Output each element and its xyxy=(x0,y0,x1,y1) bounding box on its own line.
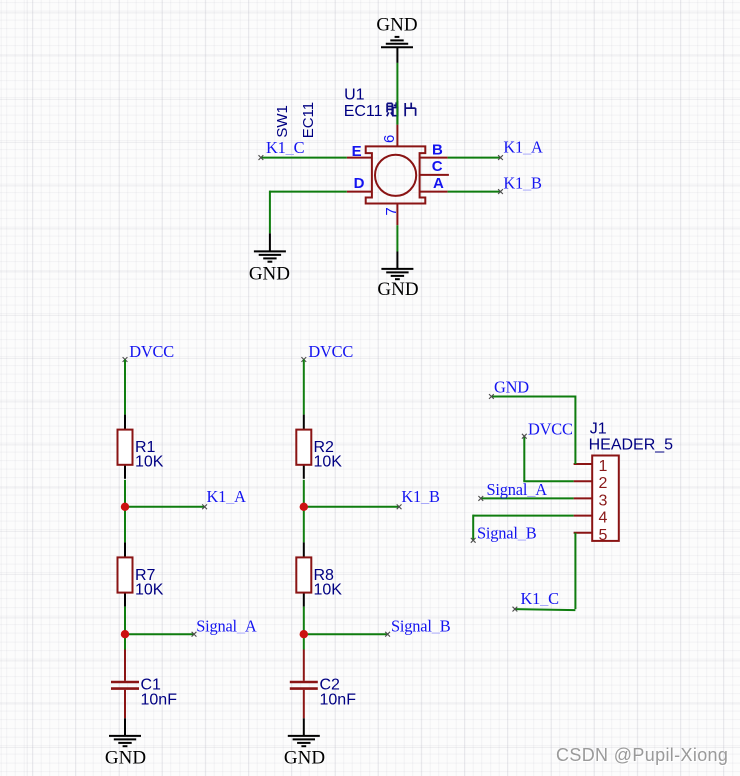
svg-text:10K: 10K xyxy=(135,454,164,471)
capacitor C1 10nF xyxy=(111,650,177,736)
svg-text:GND: GND xyxy=(284,748,325,769)
wire net K1_C to J1 pin 5 xyxy=(513,533,576,612)
capacitor C2 10nF xyxy=(290,650,356,736)
svg-text:GND: GND xyxy=(377,279,418,300)
ground GND text column 1 xyxy=(105,748,146,769)
wire GND to U1 pin 6 xyxy=(396,63,398,125)
U1 pin 7 (bottom) xyxy=(383,204,400,226)
U1 pin E (left top) xyxy=(347,143,372,160)
svg-text:K1_C: K1_C xyxy=(266,138,305,157)
wire net Signal_B to J1 pin 4 xyxy=(471,515,574,543)
node Signal_B label column 2 xyxy=(391,617,451,636)
watermark CSDN xyxy=(556,745,729,766)
svg-text:3: 3 xyxy=(599,492,608,509)
node junction Signal_A xyxy=(121,630,129,638)
J1 pin 4 xyxy=(574,510,608,527)
J1 pin 3 xyxy=(574,492,608,509)
svg-text:Signal_A: Signal_A xyxy=(196,617,257,636)
node junction Signal_B xyxy=(300,630,308,638)
svg-text:EC11: EC11 xyxy=(300,102,317,138)
svg-text:K1_A: K1_A xyxy=(503,138,543,157)
svg-text:10K: 10K xyxy=(314,454,343,471)
svg-text:B: B xyxy=(432,142,443,159)
node junction K1_B xyxy=(300,503,308,511)
svg-text:2: 2 xyxy=(599,475,608,492)
ground GND column 1 xyxy=(109,736,141,746)
node K1_A label (encoder) xyxy=(503,138,543,157)
connector J1 HEADER_5 body xyxy=(592,456,619,541)
U1 reference designator xyxy=(344,87,365,104)
svg-text:HEADER_5: HEADER_5 xyxy=(589,437,674,454)
svg-text:E: E xyxy=(352,143,362,160)
wire net GND to J1 pin 1 xyxy=(489,394,575,464)
EC11 value (rotated) xyxy=(300,102,317,138)
svg-text:SW1: SW1 xyxy=(274,105,291,138)
U1 pin 6 (top) xyxy=(381,125,398,147)
svg-text:7: 7 xyxy=(383,207,400,215)
node junction K1_A xyxy=(121,503,129,511)
wire net K1_A column 1 xyxy=(125,504,207,509)
svg-text:GND: GND xyxy=(249,264,290,285)
wire net Signal_B column 2 xyxy=(304,632,390,637)
ground GND column 2 xyxy=(288,736,320,746)
ground GND top (net of pin 6) xyxy=(376,15,417,63)
J1 pin 1 xyxy=(574,458,608,475)
svg-text:4: 4 xyxy=(599,510,608,527)
ground GND left text xyxy=(249,264,290,285)
svg-text:5: 5 xyxy=(599,527,608,544)
wire net K1_B from pin A xyxy=(448,189,503,194)
wire R7 to C1 xyxy=(124,607,126,650)
svg-text:CSDN @Pupil-Xiong: CSDN @Pupil-Xiong xyxy=(556,745,728,765)
node DVCC label at J1 xyxy=(528,419,573,438)
wire pin 7 to ground xyxy=(396,225,398,269)
node K1_C label at J1 xyxy=(521,589,560,608)
SW1 reference (rotated) xyxy=(274,105,291,138)
resistor R7 10K xyxy=(118,542,164,606)
ground GND left xyxy=(254,251,286,261)
U1 pin B (right top) xyxy=(420,142,448,159)
node Signal_A label at J1 xyxy=(487,480,548,499)
J1 reference designator xyxy=(590,421,607,438)
svg-text:U1: U1 xyxy=(344,87,365,104)
ground GND bottom of encoder xyxy=(381,269,413,279)
wire net Signal_A to J1 pin 3 xyxy=(478,496,573,501)
svg-text:10nF: 10nF xyxy=(141,692,178,709)
svg-text:J1: J1 xyxy=(590,421,607,438)
J1 value HEADER_5 xyxy=(589,437,674,454)
ground GND text below encoder xyxy=(377,279,418,300)
svg-text:1: 1 xyxy=(599,458,608,475)
svg-text:Signal_B: Signal_B xyxy=(391,617,451,636)
node DVCC label column 1 xyxy=(129,342,174,361)
U1 pin C (right middle) xyxy=(420,158,449,175)
svg-text:D: D xyxy=(354,175,365,192)
wire net K1_C to pin E xyxy=(259,155,347,160)
svg-text:10K: 10K xyxy=(135,581,164,598)
svg-text:6: 6 xyxy=(381,135,398,143)
svg-text:10K: 10K xyxy=(314,581,343,598)
svg-text:Signal_A: Signal_A xyxy=(487,480,548,499)
svg-text:Signal_B: Signal_B xyxy=(477,523,537,542)
resistor R8 10K xyxy=(296,542,342,606)
node Signal_B label at J1 xyxy=(477,523,537,542)
svg-text:10nF: 10nF xyxy=(320,692,357,709)
svg-text:GND: GND xyxy=(105,748,146,769)
svg-text:K1_B: K1_B xyxy=(401,487,440,506)
J1 pin 5 xyxy=(574,527,608,544)
wire net DVCC to J1 pin 2 xyxy=(522,434,574,481)
svg-text:DVCC: DVCC xyxy=(129,342,174,361)
wire R1 to R7 xyxy=(124,480,126,543)
ground GND text column 2 xyxy=(284,748,325,769)
U1 value EC11 贴片 xyxy=(344,101,416,125)
encoder U1 EC11 symbol body xyxy=(366,146,426,203)
wire pin D to ground xyxy=(270,191,347,252)
resistor R1 10K xyxy=(118,415,164,479)
wire net K1_B column 2 xyxy=(304,504,402,509)
resistor R2 10K xyxy=(296,415,342,479)
svg-text:DVCC: DVCC xyxy=(528,419,573,438)
wire net Signal_A column 1 xyxy=(125,632,196,637)
node GND label at J1 xyxy=(494,377,529,396)
J1 pin 2 xyxy=(574,475,608,492)
svg-text:K1_A: K1_A xyxy=(207,487,247,506)
wire DVCC to R2 xyxy=(301,357,306,415)
svg-text:DVCC: DVCC xyxy=(308,342,353,361)
svg-text:K1_C: K1_C xyxy=(521,589,560,608)
svg-text:GND: GND xyxy=(494,377,529,396)
node Signal_A label column 1 xyxy=(196,617,257,636)
wire R2 to R8 xyxy=(303,480,305,543)
svg-text:A: A xyxy=(433,175,444,192)
wire DVCC to R1 xyxy=(123,357,128,415)
node K1_B label column 2 xyxy=(401,487,440,506)
wire R8 to C2 xyxy=(303,607,305,650)
svg-text:K1_B: K1_B xyxy=(503,173,542,192)
svg-text:EC11: EC11 xyxy=(344,103,383,120)
U1 pin A (right bottom) xyxy=(420,175,448,192)
U1 pin D (left bottom) xyxy=(347,175,372,192)
node K1_B label (encoder) xyxy=(503,173,542,192)
svg-text:C: C xyxy=(432,158,443,175)
wire net K1_A from pin B xyxy=(448,155,503,160)
node K1_C label xyxy=(266,138,305,157)
svg-text:GND: GND xyxy=(376,15,417,36)
node DVCC label column 2 xyxy=(308,342,353,361)
node K1_A label column 1 xyxy=(207,487,247,506)
